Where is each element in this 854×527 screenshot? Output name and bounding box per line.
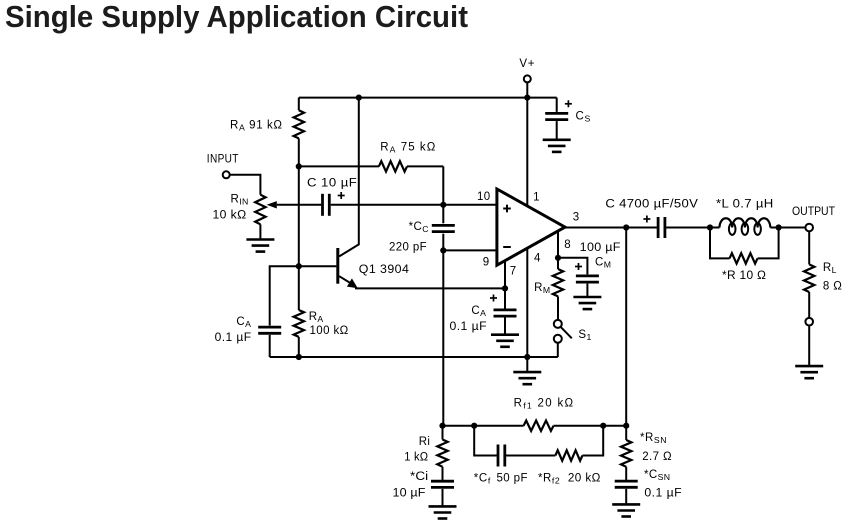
svg-text:INPUT: INPUT [207, 153, 239, 165]
ground CS [543, 140, 571, 152]
label CM value [580, 242, 621, 254]
capacitor C4700 [658, 217, 665, 238]
label CC value [389, 241, 427, 253]
svg-text:*RSN: *RSN [640, 432, 667, 445]
label S1 [578, 329, 591, 342]
node feedback left junction [439, 423, 445, 429]
wire bias to base [298, 166, 300, 266]
label RL [823, 262, 837, 275]
svg-text:C 4700 µF/50V: C 4700 µF/50V [605, 199, 698, 211]
node collector-rail junction [356, 95, 362, 101]
label RA 91k [230, 119, 283, 132]
resistor RA 75k [299, 161, 444, 205]
svg-text:RA 75 kΩ: RA 75 kΩ [380, 142, 436, 155]
svg-text:CA: CA [236, 316, 251, 329]
capacitor Cf [498, 445, 505, 467]
svg-text:RA 91 kΩ: RA 91 kΩ [230, 119, 283, 132]
wire pin 4 [526, 248, 528, 357]
wire bottom rail [270, 356, 558, 358]
resistor RM [553, 258, 563, 320]
pin 9 label [483, 256, 490, 268]
node bias junction [296, 163, 302, 169]
ground Ci [429, 506, 457, 518]
svg-text:CM: CM [595, 257, 611, 270]
svg-text:*CC: *CC [409, 221, 429, 234]
svg-text:CA: CA [471, 305, 486, 318]
label Rf2 value [568, 472, 601, 484]
CA pin7 plus polarity [490, 295, 497, 302]
label L [716, 199, 774, 211]
capacitor CSN [615, 481, 638, 504]
V+ supply terminal [519, 58, 535, 98]
node inverting junction [440, 247, 446, 253]
label CA pin7 value [450, 321, 488, 333]
node noninverting junction [440, 202, 446, 208]
wire wiper [277, 204, 322, 206]
svg-text:4: 4 [534, 252, 541, 264]
op-amp U1 [497, 189, 565, 265]
label CA left [236, 316, 251, 329]
svg-text:*L 0.7 µH: *L 0.7 µH [716, 199, 774, 211]
wire Rf2 up [582, 426, 603, 456]
label RA 100k [309, 311, 324, 324]
title [5, 1, 468, 34]
svg-text:OUTPUT: OUTPUT [792, 206, 835, 218]
node base junction [296, 263, 302, 269]
svg-text:RL: RL [823, 262, 837, 275]
label CSN value [644, 488, 682, 500]
label CM [595, 257, 611, 270]
svg-text:C 10 µF: C 10 µF [307, 178, 357, 190]
wire pin 1 [526, 98, 528, 207]
label RSN [640, 432, 667, 445]
CS plus polarity [565, 100, 572, 107]
svg-text:Rf1 20 kΩ: Rf1 20 kΩ [514, 398, 575, 411]
inductor L 0.7uH [720, 218, 806, 235]
svg-text:RA: RA [309, 311, 324, 324]
svg-text:RIN: RIN [231, 194, 249, 207]
svg-text:10 µF: 10 µF [393, 487, 426, 499]
svg-text:1: 1 [533, 192, 540, 204]
node bottom-rail 100k junction [296, 354, 302, 360]
node output junction [623, 224, 629, 230]
label Ri value [404, 451, 428, 463]
pin 3 label [573, 212, 580, 224]
label Ri [419, 436, 431, 448]
wire noninverting input [331, 204, 497, 206]
RL bottom terminal [805, 318, 813, 326]
label R 10 [722, 270, 766, 282]
label CA left value [215, 332, 252, 344]
svg-text:3: 3 [573, 212, 580, 224]
INPUT terminal [207, 153, 239, 178]
svg-text:*CSN: *CSN [644, 469, 670, 482]
CM plus polarity [575, 263, 582, 270]
node pin8 junction [555, 255, 561, 261]
OUTPUT terminal [792, 206, 835, 231]
label Cf value [497, 472, 528, 484]
pin 8 label [564, 239, 571, 251]
wire output [565, 227, 657, 229]
capacitor Ci [431, 481, 454, 506]
label RIN value [213, 210, 247, 222]
pin 4 label [534, 252, 541, 264]
resistor RA 100k [294, 266, 304, 357]
svg-text:RM: RM [534, 282, 550, 295]
label CC [409, 221, 429, 234]
wire pin4 ground stub [526, 357, 528, 372]
svg-text:0.1 µF: 0.1 µF [215, 332, 252, 344]
label RA 100k value [310, 325, 349, 337]
resistor RA 91k [294, 98, 304, 167]
svg-text:8 Ω: 8 Ω [823, 281, 842, 293]
svg-text:20 kΩ: 20 kΩ [568, 472, 601, 484]
svg-text:Single Supply Application Circ: Single Supply Application Circuit [5, 1, 468, 34]
svg-text:9: 9 [483, 256, 490, 268]
wire snubber riser [625, 228, 627, 426]
ground pin4 [513, 372, 541, 384]
label Ci value [393, 487, 426, 499]
node inductor left junction [707, 224, 713, 230]
wire output 2 [666, 227, 719, 229]
wire feedback row [443, 425, 627, 427]
node Rf2 right junction [600, 423, 606, 429]
capacitor CS [545, 98, 591, 140]
label C4700 [605, 199, 698, 211]
label CA pin7 [471, 305, 486, 318]
node Cf left junction [471, 423, 477, 429]
svg-text:100 kΩ: 100 kΩ [310, 325, 349, 337]
pin 10 label [477, 191, 491, 203]
capacitor CA pin7 [494, 288, 517, 334]
svg-text:1 kΩ: 1 kΩ [404, 451, 428, 463]
svg-text:8: 8 [564, 239, 571, 251]
label Rf2 [538, 472, 560, 485]
resistor RL [804, 231, 814, 318]
label RIN [231, 194, 249, 207]
wire Rf2 row [505, 455, 556, 457]
node inductor right junction [776, 224, 782, 230]
wire pin 7 [504, 260, 506, 288]
label Cf [474, 472, 491, 485]
resistor R 10 [710, 228, 779, 264]
resistor RSN [621, 426, 631, 481]
svg-text:100 µF: 100 µF [580, 242, 621, 254]
capacitor CA left [258, 266, 299, 357]
svg-text:0.1 µF: 0.1 µF [644, 488, 682, 500]
svg-text:*Ci: *Ci [410, 471, 428, 483]
switch S1 [554, 320, 572, 357]
svg-text:7: 7 [510, 266, 517, 278]
label Ci [410, 471, 428, 483]
wire input to pot [230, 175, 261, 195]
ground RIN [246, 240, 274, 252]
label Q1 [359, 264, 410, 276]
svg-text:*R 10 Ω: *R 10 Ω [722, 270, 766, 282]
svg-text:10: 10 [477, 191, 491, 203]
svg-text:Ri: Ri [419, 436, 431, 448]
svg-text:10 kΩ: 10 kΩ [213, 210, 247, 222]
svg-text:CS: CS [576, 111, 592, 124]
label RL value [823, 281, 842, 293]
node pin7 junction [502, 285, 508, 291]
svg-text:*Rf2: *Rf2 [538, 472, 560, 485]
transistor Q1 [299, 98, 359, 289]
wire feedback riser [442, 250, 444, 425]
capacitor C 10uF [307, 178, 357, 216]
svg-text:S1: S1 [578, 329, 591, 342]
C10uF plus polarity [338, 192, 345, 199]
potentiometer RIN [255, 195, 277, 240]
ground RL [795, 366, 823, 378]
node V+ junction [524, 95, 530, 101]
ground CA pin7 [491, 335, 519, 347]
svg-text:V+: V+ [519, 58, 535, 70]
C4700 plus polarity [643, 216, 650, 223]
wire RL ground [808, 326, 810, 367]
svg-text:220 pF: 220 pF [389, 241, 427, 253]
wire emitter [355, 287, 505, 289]
svg-text:0.1 µF: 0.1 µF [450, 321, 488, 333]
svg-text:Q1 3904: Q1 3904 [359, 264, 410, 276]
pin 7 label [510, 266, 517, 278]
wire top supply rail [299, 97, 557, 99]
label RSN value [642, 451, 672, 463]
resistor Rf1 [524, 421, 554, 431]
resistor Ri [437, 426, 447, 481]
wire inverting input [443, 249, 497, 251]
label RA 75k [380, 142, 436, 155]
svg-text:50 pF: 50 pF [497, 472, 528, 484]
ground CSN [612, 504, 640, 516]
label RM [534, 282, 550, 295]
capacitor CC [432, 205, 455, 251]
node snubber junction [623, 423, 629, 429]
resistor Rf2 [555, 450, 582, 460]
ground CM [573, 297, 601, 309]
svg-text:2.7 Ω: 2.7 Ω [642, 451, 672, 463]
pin 1 label [533, 192, 540, 204]
svg-text:*Cf: *Cf [474, 472, 491, 485]
wire Cf branch [474, 426, 498, 456]
wire pin 8 [557, 231, 559, 258]
label CSN [644, 469, 670, 482]
capacitor CM [558, 258, 599, 297]
label Rf1 [514, 398, 575, 411]
node bottom-rail pin4 junction [524, 354, 530, 360]
